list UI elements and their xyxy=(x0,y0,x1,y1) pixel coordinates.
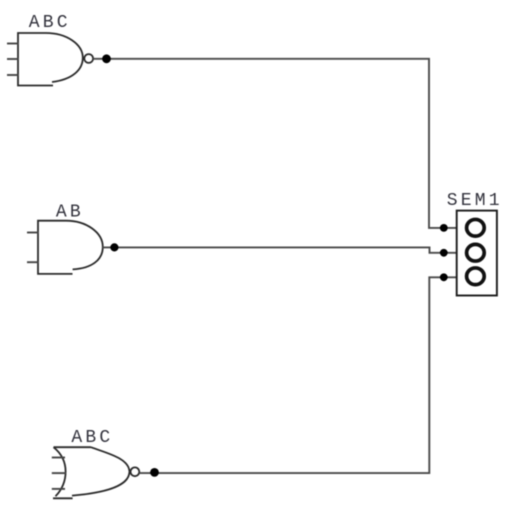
svg-text:ABC: ABC xyxy=(71,428,113,448)
SEM1 lamp 1 xyxy=(467,219,485,236)
NAND output bubble xyxy=(84,54,93,63)
NAND input pin A xyxy=(7,43,19,45)
NOR input pin B xyxy=(52,472,66,474)
NOR gate U3 body xyxy=(53,447,129,498)
svg-text:ABC: ABC xyxy=(29,13,71,33)
AND input pin A xyxy=(27,232,39,234)
AND gate U2 body xyxy=(38,221,103,274)
NAND input pin B xyxy=(7,58,19,60)
junction dot on NOR output xyxy=(150,468,159,477)
NOR input pin A xyxy=(52,457,65,459)
svg-text:AB: AB xyxy=(56,203,84,223)
SEM1 body xyxy=(457,211,497,296)
SEM1 lamp 2 xyxy=(467,244,485,261)
junction dot at SEM1 pin 3 xyxy=(440,273,448,281)
NOR input pin C xyxy=(52,488,65,490)
junction dot at SEM1 pin 2 xyxy=(440,249,448,257)
NAND input pin C xyxy=(7,74,19,76)
svg-text:SEM1: SEM1 xyxy=(447,191,503,211)
wire AND output to SEM1 pin 2 xyxy=(103,247,457,252)
NAND gate U1 body xyxy=(18,33,83,86)
NOR output bubble xyxy=(131,467,140,476)
junction dot on NAND output xyxy=(102,54,111,63)
junction dot at SEM1 pin 1 xyxy=(440,224,448,232)
wire NAND output to SEM1 pin 1 xyxy=(93,59,456,228)
AND input pin B xyxy=(27,261,39,263)
wire NOR output to SEM1 pin 3 xyxy=(139,277,456,473)
SEM1 lamp 3 xyxy=(467,268,485,285)
junction dot on AND output xyxy=(110,243,118,251)
